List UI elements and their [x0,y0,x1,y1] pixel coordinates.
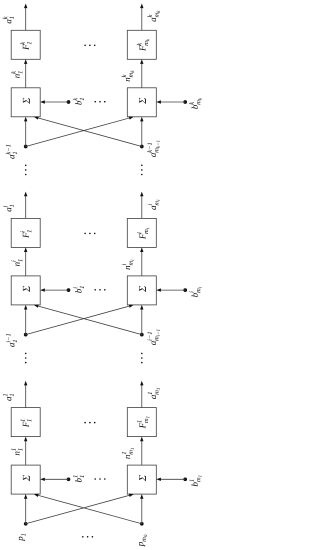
label nm^i [122,260,134,270]
ellipsis between F boxes layer i [84,233,95,235]
label F1^k [20,42,31,50]
vdots below input1 layer i [25,353,27,364]
label a1^k [3,16,14,23]
box F1^i [11,218,40,247]
label n1^i [11,259,22,266]
wire n1^i arrow [24,247,27,276]
label input a1^i-1 [6,334,17,347]
label bm^1 [189,475,201,486]
node b1^1 dot [67,477,71,481]
label Sigmam layer i [139,286,146,292]
wire output a1^i arrow [24,192,27,219]
wire inputm to Sigma1 layer 1 [34,494,142,524]
label nm^1 [122,448,134,459]
box F1^k [11,30,40,59]
node bm^k dot [183,100,187,104]
wire inputm to Sigmam layer i [140,305,143,335]
label am^i [148,200,160,210]
node bm^i dot [183,288,187,292]
box Fm^k [127,30,156,59]
box Sigmam layer 1 [127,465,156,494]
wire b1^k arrow [40,100,68,103]
wire input1 to Sigmam layer k [26,116,134,146]
label a1^1 [3,394,14,401]
vdots below inputm layer i [141,353,143,364]
label n1^1 [11,449,22,456]
label n1^k [11,71,22,78]
label b1^k [73,98,84,105]
box Fm^i [127,218,156,247]
wire nm^i arrow [140,247,143,276]
ellipsis between F boxes layer k [84,45,95,47]
wire output am^i arrow [140,192,143,219]
label b1^i [73,286,84,293]
label input pm0 [139,535,147,547]
label am^k [148,11,160,22]
wire b1^1 arrow [40,478,68,481]
box F1^1 [11,408,40,437]
label F1^1 [20,419,31,427]
wire n1^k arrow [24,59,27,88]
node b1^i dot [67,288,71,292]
node bm^1 dot [183,477,187,481]
box Sigmam layer i [127,276,156,305]
wire inputm to Sigma1 layer i [34,304,142,334]
wire nm^k arrow [140,59,143,88]
label Sigma1 layer k [23,98,30,104]
wire bm^1 arrow [156,478,185,481]
label bm^k [189,98,201,109]
label Sigmam layer k [139,98,146,104]
wire inputm to Sigma1 layer k [34,116,142,146]
ellipsis between bias and Sigma layer 1 [94,478,105,480]
wire inputm to Sigmam layer k [140,117,143,147]
label Sigma1 layer 1 [23,475,30,481]
wire input1 to Sigma1 layer i [24,305,27,335]
ellipsis between inputs p [82,536,93,538]
wire output am^1 arrow [140,381,143,408]
node inputm layer 1 dot [140,522,144,526]
wire bm^i arrow [156,288,185,291]
ellipsis between F boxes layer 1 [84,422,95,424]
wire bm^k arrow [156,100,185,103]
wire output am^k arrow [140,4,143,31]
node input1 layer i dot [24,333,28,337]
wire input1 to Sigma1 layer 1 [24,494,27,524]
label b1^1 [73,475,84,482]
node input1 layer 1 dot [24,522,28,526]
label bm^i [189,287,201,297]
label nm^k [122,70,134,81]
box Sigma1 layer i [11,276,40,305]
label Fm^k [137,39,149,51]
wire nm^1 arrow [140,437,143,466]
box Sigma1 layer k [11,88,40,117]
ellipsis between bias and Sigma layer k [94,101,105,103]
wire n1^1 arrow [24,437,27,466]
label Fm^1 [137,416,149,428]
label Fm^i [137,228,149,239]
box Sigmam layer k [127,88,156,117]
ellipsis between bias and Sigma layer i [94,289,105,291]
label input p1 [19,534,26,542]
node input1 layer k dot [24,145,28,149]
label input am^k-1 [147,141,159,157]
wire output a1^k arrow [24,4,27,31]
node b1^k dot [67,100,71,104]
label F1^i [20,230,31,238]
wire input1 to Sigmam layer 1 [26,494,134,524]
label input a1^k-1 [6,145,17,159]
vdots below input1 layer k [25,165,27,176]
box Sigma1 layer 1 [11,465,40,494]
label Sigma1 layer i [23,286,30,292]
label am^1 [148,388,160,399]
label Sigmam layer 1 [139,475,146,481]
wire output a1^1 arrow [24,381,27,408]
vdots below inputm layer k [141,165,143,176]
wire inputm to Sigmam layer 1 [140,494,143,524]
label a1^i [3,205,14,212]
node inputm layer i dot [140,333,144,337]
wire b1^i arrow [40,288,68,291]
label input am^i-1 [148,330,160,346]
node inputm layer k dot [140,145,144,149]
box Fm^1 [127,408,156,437]
wire input1 to Sigma1 layer k [24,117,27,147]
wire input1 to Sigmam layer i [26,304,134,334]
